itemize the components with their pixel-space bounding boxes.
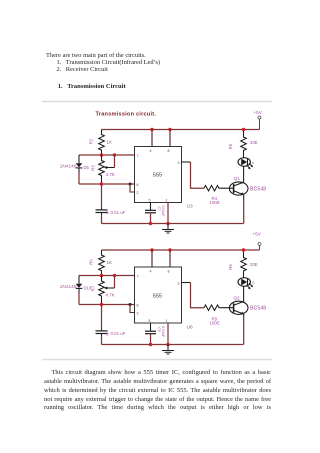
svg-text:2: 2 bbox=[137, 312, 139, 316]
svg-text:5: 5 bbox=[106, 210, 109, 216]
svg-text:C9: C9 bbox=[157, 327, 161, 332]
junction on VCC rail above pin 8 bbox=[168, 128, 171, 131]
wire: VCC to pin 8 (c2) bbox=[169, 250, 171, 267]
junction pin 1 at ground rail (c2) bbox=[166, 343, 169, 346]
svg-text:1N4148: 1N4148 bbox=[60, 284, 77, 289]
svg-text:7: 7 bbox=[137, 275, 139, 279]
svg-text:4: 4 bbox=[150, 149, 152, 153]
svg-text:100E: 100E bbox=[210, 200, 220, 205]
svg-text:BC548: BC548 bbox=[250, 186, 266, 192]
wire: node B (pin 6 net) bbox=[79, 183, 135, 185]
resistor R6 1K bbox=[89, 250, 113, 276]
power terminal +5V (circuit 2) bbox=[258, 243, 261, 251]
wire: pin 6 to pin 2 strap (c2) bbox=[130, 305, 135, 313]
wire: top VCC rail (circuit 2) bbox=[102, 249, 260, 251]
junction C7 at ground rail bbox=[149, 222, 152, 225]
resistor R9 100E bbox=[204, 305, 233, 326]
wire: node B2 down to C8 bbox=[101, 305, 103, 330]
junction node A2 at R6/R7 bbox=[100, 274, 103, 277]
schematic frame bottom edge bbox=[42, 359, 272, 361]
svg-text:4: 4 bbox=[150, 270, 152, 274]
svg-text:1: 1 bbox=[166, 319, 168, 323]
junction node B2 at R7/C8 bbox=[100, 303, 103, 306]
wire: pin 3 stub (c2) bbox=[182, 282, 191, 284]
wire: wiper to node A bbox=[114, 155, 116, 168]
LED D11 bbox=[238, 278, 255, 290]
svg-text:8: 8 bbox=[168, 149, 170, 153]
wire: C8 to ground rail bbox=[101, 336, 103, 345]
resistor R5 33E bbox=[228, 131, 258, 158]
resistor R2 1K bbox=[89, 130, 113, 156]
junction node B2 at pin 6 bbox=[129, 303, 132, 306]
svg-text:3: 3 bbox=[178, 282, 180, 286]
svg-text:0.01 uF: 0.01 uF bbox=[111, 331, 126, 336]
wire: VCC to pin 8 bbox=[169, 130, 171, 147]
wire: VCC to pin 4 bbox=[151, 130, 153, 147]
svg-text:Transmission circuit.: Transmission circuit. bbox=[96, 111, 157, 117]
junction C9 at ground rail bbox=[149, 343, 152, 346]
svg-text:100E: 100E bbox=[210, 321, 220, 326]
svg-text:0.01 uF: 0.01 uF bbox=[111, 210, 126, 215]
wire: C5 to ground rail bbox=[101, 215, 103, 224]
svg-text:6: 6 bbox=[137, 304, 139, 308]
svg-text:1K: 1K bbox=[107, 260, 113, 265]
wire: pin 3 stub bbox=[182, 161, 191, 163]
wire: bottom ground rail (circuit 1) bbox=[102, 223, 244, 225]
svg-text:555: 555 bbox=[153, 173, 162, 179]
svg-text:33E: 33E bbox=[250, 140, 258, 145]
svg-text:8: 8 bbox=[168, 270, 170, 274]
potentiometer R7 4.7K bbox=[91, 276, 115, 305]
svg-text:1N4148: 1N4148 bbox=[60, 164, 77, 169]
resistor R8 33E bbox=[228, 252, 258, 278]
svg-text:+5V: +5V bbox=[254, 110, 263, 115]
wire: node B2 (pin 6 net, c2) bbox=[79, 304, 135, 306]
junction node A2 at wiper branch bbox=[113, 274, 116, 277]
node +5V label (circuit 1) bbox=[254, 110, 263, 115]
junction on VCC rail at R5 branch bbox=[242, 128, 245, 131]
power terminal +5V (circuit 1) bbox=[258, 116, 261, 130]
svg-text:2: 2 bbox=[137, 191, 139, 195]
svg-text:R3: R3 bbox=[91, 165, 96, 171]
junction on VCC rail above pin 8 (c2) bbox=[168, 248, 171, 251]
IC U3 555 timer bbox=[135, 147, 193, 210]
svg-text:R7: R7 bbox=[91, 285, 96, 291]
schematic frame top edge bbox=[42, 101, 272, 103]
junction node B at R3/C5 bbox=[100, 182, 103, 185]
svg-text:U6: U6 bbox=[187, 324, 193, 330]
svg-text:Q2: Q2 bbox=[234, 295, 241, 300]
svg-text:6: 6 bbox=[252, 161, 254, 165]
junction node A at R2/R3 bbox=[100, 153, 103, 156]
wire: bottom ground rail (circuit 2) bbox=[102, 344, 244, 346]
bottom paragraph bbox=[44, 369, 271, 376]
svg-text:U3: U3 bbox=[187, 204, 193, 210]
wire: C9 to ground rail bbox=[150, 334, 152, 345]
svg-text:C7: C7 bbox=[157, 207, 161, 212]
LED D6 bbox=[238, 158, 254, 170]
ground symbol (circuit 1) bbox=[162, 224, 174, 234]
wire: pin 3 to R4 bbox=[191, 162, 205, 188]
svg-text:1K: 1K bbox=[107, 140, 113, 145]
svg-text:1: 1 bbox=[166, 199, 168, 203]
svg-text:0.01uF: 0.01uF bbox=[161, 206, 165, 217]
junction on VCC rail above pin 4 (c2) bbox=[150, 248, 153, 251]
wire: emitter to ground rail bbox=[243, 200, 245, 224]
transistor Q1 BC548 bbox=[229, 176, 266, 200]
wire: node A2 (pin 7 net, c2) bbox=[79, 275, 135, 277]
top intro text bbox=[46, 52, 146, 59]
junction on VCC rail at R8 branch bbox=[242, 248, 245, 251]
svg-text:+5V: +5V bbox=[253, 232, 262, 237]
svg-text:Q1: Q1 bbox=[234, 176, 241, 181]
diode D10 1N4148 bbox=[60, 276, 92, 293]
wire: pin 1 to ground rail (c2) bbox=[167, 323, 169, 345]
junction on VCC rail above pin 4 bbox=[150, 128, 153, 131]
svg-text:8: 8 bbox=[106, 331, 109, 337]
transistor Q2 BC548 bbox=[229, 295, 266, 318]
svg-text:6: 6 bbox=[137, 183, 139, 187]
svg-text:4.7K: 4.7K bbox=[106, 172, 115, 177]
resistor R4 100E bbox=[204, 186, 233, 206]
svg-text:R5: R5 bbox=[228, 143, 233, 149]
junction pin 1 at ground rail bbox=[166, 222, 169, 225]
diode D5 1N4148 bbox=[60, 155, 90, 172]
svg-text:7: 7 bbox=[137, 154, 139, 158]
IC U6 555 timer bbox=[135, 267, 193, 330]
svg-text:R8: R8 bbox=[228, 264, 233, 270]
wire: collector to LED bbox=[243, 166, 245, 183]
ground symbol (circuit 2) bbox=[162, 345, 174, 355]
svg-text:R2: R2 bbox=[89, 138, 94, 144]
wire: diode to node B2 bbox=[78, 293, 80, 305]
svg-text:R6: R6 bbox=[89, 259, 94, 265]
node +5V label (circuit 2) bbox=[253, 232, 262, 237]
wire: collector to LED (c2) bbox=[243, 286, 245, 303]
wire: pin 3 to R9 bbox=[191, 283, 205, 308]
svg-text:G: G bbox=[252, 281, 255, 285]
wire: node B down to C5 bbox=[101, 184, 103, 208]
svg-text:3: 3 bbox=[178, 161, 180, 165]
title: Transmission circuit bbox=[96, 111, 157, 117]
svg-text:0.01uF: 0.01uF bbox=[161, 326, 165, 337]
wire: pin 1 to ground rail bbox=[167, 203, 169, 224]
svg-text:555: 555 bbox=[153, 293, 162, 299]
wire: top VCC rail (circuit 1) bbox=[102, 129, 260, 131]
wire: pin 6 to pin 2 strap bbox=[130, 184, 135, 192]
svg-text:4.7K: 4.7K bbox=[106, 293, 115, 298]
svg-text:D5: D5 bbox=[84, 165, 90, 170]
potentiometer R3 4.7K bbox=[91, 155, 115, 184]
capacitor C8 0.01uF bbox=[96, 329, 126, 337]
svg-text:33E: 33E bbox=[250, 262, 258, 267]
capacitor C5 0.01uF bbox=[96, 208, 126, 216]
junction node A at wiper branch bbox=[113, 153, 116, 156]
wire: node A (pin 7 net) bbox=[79, 154, 135, 156]
svg-text:5: 5 bbox=[149, 199, 151, 203]
wire: C7 to ground rail bbox=[150, 213, 152, 224]
wire: emitter to ground rail (c2) bbox=[243, 319, 245, 345]
capacitor C7 0.01uF at pin 5 bbox=[145, 203, 165, 217]
wire: VCC to pin 4 (c2) bbox=[151, 250, 153, 267]
wire: wiper to node A2 bbox=[114, 276, 116, 289]
wire: diode to node B bbox=[78, 172, 80, 184]
capacitor C9 0.01uF at pin 5 (c2) bbox=[145, 323, 165, 337]
svg-text:5: 5 bbox=[149, 319, 151, 323]
svg-text:BC548: BC548 bbox=[250, 306, 266, 312]
junction node B at pin 6 bbox=[129, 183, 132, 186]
